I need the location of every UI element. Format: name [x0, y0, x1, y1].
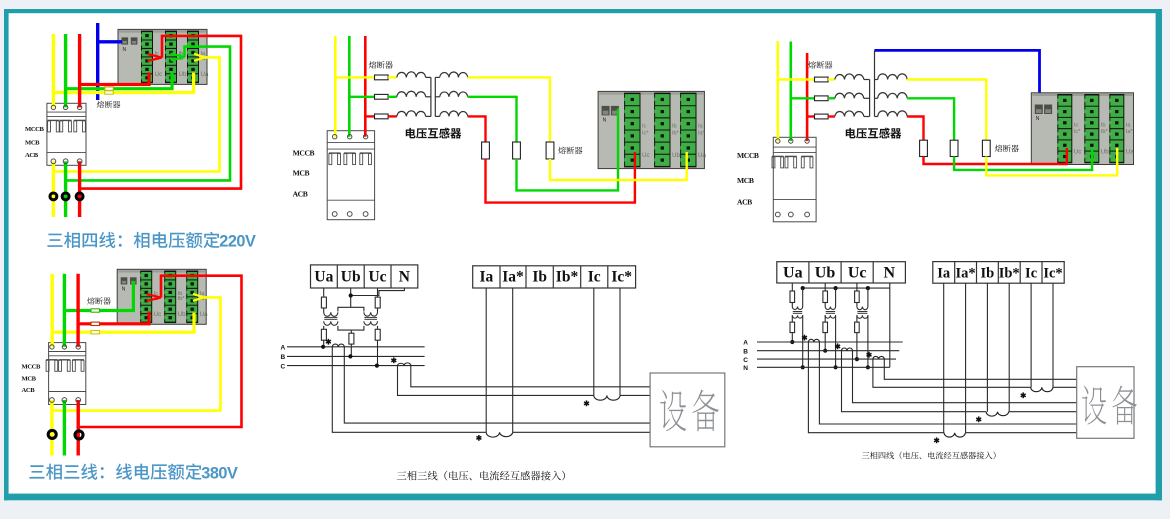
svg-text:MCB: MCB	[22, 375, 37, 382]
wire yellow current loop	[53, 57, 219, 171]
svg-text:Uc: Uc	[848, 265, 867, 282]
svg-text:Ia: Ia	[937, 266, 951, 282]
wire yellow to meter Ua TM	[550, 152, 687, 180]
svg-text:Ua: Ua	[200, 311, 208, 318]
svg-text:C: C	[281, 363, 286, 370]
wire phase C red vertical	[78, 34, 81, 107]
wire CT-A star lead BR	[808, 342, 944, 433]
wire mid to bus B BM	[350, 344, 352, 356]
wire CT-C return BR	[884, 359, 1076, 379]
PT primary common bar TM	[430, 77, 432, 116]
svg-text:Ia*: Ia*	[502, 269, 524, 286]
svg-text:MCB: MCB	[293, 169, 310, 178]
meter M3 (PT input)	[598, 91, 706, 168]
wire Ic* vertical BM	[619, 288, 621, 395]
wire red secondary TM	[468, 116, 486, 142]
polarity star CT-C BM	[391, 357, 396, 363]
circuit breaker Q4	[772, 137, 816, 222]
svg-text:Ua: Ua	[201, 71, 209, 78]
wire Ic vertical BM	[593, 288, 595, 395]
svg-text:220V: 220V	[219, 233, 256, 251]
PT secondary common bar TM	[434, 77, 436, 116]
label bus B BM	[281, 354, 286, 361]
label bus C BR	[743, 357, 748, 364]
wire PT mid lead BM	[350, 330, 352, 333]
fuse Ua BM	[321, 297, 326, 308]
wire Uc to PT BM	[377, 308, 379, 313]
breaker labels MCCB/MCB/ACB	[22, 364, 42, 395]
wire blue neutral to meter TR	[875, 50, 1040, 108]
fuse on row TR	[815, 77, 829, 82]
wire green below breaker	[64, 161, 67, 217]
junction Ub-N BM	[349, 293, 353, 297]
svg-text:C: C	[743, 357, 748, 364]
svg-text:Ib: Ib	[532, 269, 547, 286]
PT unit phase A BR	[791, 283, 793, 291]
wire yellow voltage tap to Ua	[53, 73, 193, 93]
teal frame right	[1156, 9, 1162, 500]
svg-text:Ia: Ia	[480, 269, 494, 286]
junction	[801, 365, 805, 369]
breaker terminals	[775, 139, 809, 217]
svg-text:B: B	[743, 348, 748, 355]
polarity star Ic BR	[1021, 392, 1026, 398]
junction	[790, 340, 794, 344]
svg-text:ACB: ACB	[737, 198, 752, 207]
wire to equipment 2 BM	[620, 394, 650, 396]
svg-text:ACB: ACB	[293, 189, 308, 198]
wire red secondary TR	[907, 117, 923, 141]
polarity mark	[835, 343, 840, 349]
svg-text:Ia*: Ia*	[956, 266, 976, 282]
polarity mark	[867, 352, 872, 358]
wire Ia* vertical BM	[512, 288, 514, 432]
wire phase B green vertical	[64, 34, 67, 107]
terminal strip Ia..Ic*	[473, 266, 636, 288]
label bus N BR	[743, 365, 748, 372]
wire CT-A star lead BM	[332, 347, 486, 433]
breaker labels MCCB/MCB/ACB	[293, 148, 315, 198]
junction	[834, 286, 838, 290]
polarity star CT-A BM	[326, 339, 331, 345]
wire green vertical TR	[789, 42, 792, 142]
wire green vertical TM	[348, 36, 351, 137]
svg-text:B: B	[281, 354, 286, 361]
red plug into Uc terminals	[148, 54, 163, 61]
wire green secondary TM	[468, 97, 517, 142]
CT ring on phase A	[50, 193, 57, 200]
wire yellow branch TM	[335, 76, 374, 78]
fuse vertical green TR	[950, 140, 958, 156]
PT right core BM	[364, 316, 377, 318]
bus C BR	[757, 358, 896, 360]
svg-text:Ib: Ib	[1101, 123, 1106, 129]
svg-text:Ic: Ic	[1025, 266, 1038, 282]
wire Ua to PT BM	[323, 308, 325, 313]
green plug into Ub terminals	[171, 53, 185, 60]
wire CT-B return BR	[853, 351, 1077, 403]
teal frame left	[4, 9, 9, 500]
polarity mark	[802, 335, 807, 341]
label bus A BR	[743, 340, 748, 347]
wire to bus A BM	[323, 340, 325, 347]
junction bus B BM	[348, 354, 352, 358]
svg-text:MCB: MCB	[25, 140, 40, 147]
svg-text:Ib*: Ib*	[672, 131, 680, 137]
CT ring on phase B	[62, 193, 69, 200]
PT unit phase C BR	[856, 283, 858, 291]
wire Ia vertical BM	[485, 288, 487, 432]
wire to equipment BR	[1009, 411, 1077, 413]
title three-phase three-wire 380V	[29, 463, 201, 479]
wire Ia vertical BR	[943, 283, 945, 433]
svg-text:Ic: Ic	[588, 269, 601, 286]
wire red tap to Uc BL	[78, 312, 149, 324]
PT primary common bar TR	[869, 80, 871, 117]
voltage transformer primary coils TR	[828, 78, 835, 80]
wire Ib vertical BR	[986, 283, 988, 412]
svg-text:Ic: Ic	[642, 124, 647, 130]
wire left secondary lead BM	[323, 326, 325, 329]
polarity star Ia BR	[934, 437, 939, 443]
breaker labels MCCB/MCB/ACB	[737, 151, 759, 207]
wire N jog BM	[351, 288, 405, 296]
wire green voltage tap to Ub	[66, 73, 172, 89]
wire phase B green vertical BL	[63, 274, 66, 347]
wire CT-C return BM	[411, 366, 650, 387]
svg-text:Ia*: Ia*	[698, 131, 706, 137]
wire Ia* vertical BR	[965, 283, 967, 433]
svg-text:ACB: ACB	[25, 152, 39, 159]
fuse vertical red TM	[482, 142, 490, 159]
svg-text:N: N	[743, 365, 748, 372]
svg-text:Ua: Ua	[783, 265, 803, 282]
svg-text:Uc: Uc	[368, 269, 386, 286]
wire red current loop BL	[78, 276, 241, 427]
fuse on row TR	[815, 96, 829, 101]
yellow plug into Ua terminals BL	[193, 294, 204, 301]
voltage transformer secondary coils TR	[875, 79, 878, 81]
fuse on green tap BL	[91, 309, 100, 312]
fuse vertical red TR	[920, 140, 928, 156]
wire Ib* vertical BR	[1008, 283, 1010, 412]
bus B BR	[757, 350, 899, 352]
wire blue branch to N terminal	[98, 40, 122, 43]
fuse mid secondary BM	[349, 333, 354, 344]
wire to bus C BM	[377, 340, 379, 365]
junction	[866, 365, 870, 369]
polarity star Ia BM	[476, 435, 481, 441]
wire red below breaker	[78, 161, 81, 217]
svg-text:MCCB: MCCB	[293, 148, 315, 157]
voltage transformer secondary coils TM	[435, 76, 439, 78]
svg-text:Ib: Ib	[981, 266, 995, 282]
wire green secondary TR	[907, 98, 954, 140]
label fuse vertical TM	[558, 147, 582, 155]
title three-phase four-wire 220V	[47, 232, 219, 248]
teal frame bottom	[4, 494, 1162, 501]
svg-text:ACB: ACB	[22, 387, 36, 394]
wire green current loop	[66, 47, 230, 181]
svg-text:Ia*: Ia*	[1126, 129, 1134, 135]
svg-text:Ub: Ub	[815, 265, 836, 282]
junction bus C BM	[375, 364, 379, 368]
wire green branch TR	[791, 97, 815, 99]
PT unit phase B BR	[824, 283, 826, 291]
svg-text:Ic*: Ic*	[642, 131, 649, 137]
label fuse 熔断器 BL	[87, 297, 111, 304]
circuit breaker Q1	[47, 103, 86, 165]
junction	[823, 349, 827, 353]
teal frame top	[4, 9, 1162, 13]
svg-text:A: A	[743, 340, 748, 347]
svg-text:N: N	[603, 118, 607, 124]
svg-text:MCCB: MCCB	[737, 151, 759, 160]
label bus A BM	[281, 345, 286, 352]
wire green to meter Ub TR	[954, 148, 1092, 170]
svg-text:N: N	[123, 47, 127, 53]
svg-text:N: N	[884, 265, 896, 282]
wire red below breaker BL	[76, 400, 79, 456]
title 380V value	[201, 464, 238, 482]
red plug into Uc terminals BL	[147, 294, 162, 301]
breaker labels MCCB/MCB/ACB	[25, 126, 45, 159]
equipment box 设备 BR	[1077, 367, 1134, 439]
svg-text:Uc: Uc	[642, 152, 650, 159]
fuse vertical green TM	[513, 142, 521, 159]
wire red current loop	[80, 36, 241, 189]
PT secondary bridge BM	[338, 326, 364, 330]
title 220V value	[219, 233, 256, 251]
wire CT-C star lead BR	[873, 359, 1031, 387]
wire Uc drop BM	[377, 288, 379, 297]
svg-text:A: A	[281, 345, 286, 352]
wire yellow vertical TR	[776, 41, 779, 141]
wire phase A yellow vertical BL	[51, 274, 54, 347]
yellow plug into Ua terminals	[194, 54, 205, 61]
svg-text:N: N	[122, 287, 126, 293]
junction	[834, 365, 838, 369]
junction	[801, 286, 805, 290]
wire red voltage tap to Uc	[80, 73, 149, 85]
svg-text:Ib*: Ib*	[556, 269, 579, 286]
polarity star Ic BM	[584, 400, 589, 406]
wire red branch TR	[807, 115, 814, 117]
bus C BM	[287, 365, 425, 367]
wire CT-A return BM	[344, 347, 650, 423]
label fuse TM	[369, 61, 393, 69]
svg-text:Ic*: Ic*	[1074, 129, 1081, 135]
fuse Uc BM	[375, 297, 380, 308]
label voltage transformer TM	[406, 128, 462, 139]
wire neutral blue vertical	[96, 23, 99, 100]
wire yellow to meter Ua TR	[986, 148, 1117, 175]
terminal strip Ua Ub Uc N BR	[777, 262, 906, 283]
svg-text:Uc: Uc	[154, 311, 162, 318]
meter M1 (three-phase four-wire direct)	[118, 29, 209, 84]
breaker terminals	[50, 345, 81, 403]
breaker terminals	[332, 135, 368, 217]
junction	[866, 286, 870, 290]
wire CT-C star lead BM	[398, 366, 594, 396]
wire red to meter Uc TR	[924, 148, 1067, 164]
fuse left secondary BM	[321, 329, 326, 340]
terminal strip Ia..Ic* BR	[933, 262, 1064, 284]
wire yellow vertical TM	[334, 36, 337, 137]
fuse vertical yellow TM	[546, 142, 554, 159]
wire CT-A return BR	[819, 342, 1076, 424]
svg-text:Ib: Ib	[672, 124, 677, 130]
fuse vertical yellow TR	[982, 140, 990, 156]
svg-text:Ub: Ub	[1101, 149, 1109, 156]
CT ring on phase C BL	[75, 431, 83, 439]
PT secondary common bar TR	[874, 50, 876, 116]
fuse right secondary BM	[375, 329, 380, 340]
wire yellow current loop BL	[52, 297, 221, 410]
CT ring on phase C	[76, 193, 83, 200]
svg-text:Ic: Ic	[1074, 123, 1079, 129]
junction	[855, 357, 859, 361]
wire yellow below breaker	[52, 161, 55, 217]
svg-text:Ub: Ub	[341, 269, 361, 286]
fuse on row TR	[815, 114, 829, 119]
label fuse vertical TR	[995, 145, 1019, 153]
wire to equipment BR	[1053, 386, 1077, 388]
polarity star Ib BR	[976, 416, 981, 422]
fuse F1 on green tap	[105, 87, 114, 90]
PT left core BM	[324, 316, 337, 318]
wire green below breaker BL	[63, 400, 66, 456]
wire Ua drop BM	[323, 288, 325, 297]
svg-text:Ub: Ub	[672, 152, 680, 159]
wire N tie BR	[803, 287, 890, 289]
label fuse TR	[808, 61, 832, 69]
fuse on #00d900 row TM	[375, 94, 389, 99]
label voltage transformer TR	[846, 128, 902, 139]
wire red to meter Uc TM	[486, 152, 635, 203]
label equipment BM	[660, 390, 719, 432]
wire to equipment BR	[965, 432, 1076, 434]
svg-text:Ib*: Ib*	[999, 266, 1020, 282]
bus B BM	[287, 355, 425, 357]
equipment box 设备 BM	[650, 373, 725, 447]
meter M2 (three-phase three-wire direct)	[117, 269, 208, 324]
svg-text:Uc: Uc	[155, 71, 163, 78]
CT ring on phase A BL	[48, 430, 56, 438]
wire Ic* vertical BR	[1052, 283, 1054, 387]
wire yellow branch TR	[778, 78, 815, 80]
label bus C BM	[281, 363, 286, 370]
circuit breaker Q3	[327, 131, 374, 220]
wire Ic vertical BR	[1030, 283, 1032, 387]
fuse F2 on yellow tap	[105, 91, 114, 94]
PT right winding BM	[364, 312, 378, 316]
wire red branch TM	[365, 115, 374, 117]
svg-text:380V: 380V	[201, 464, 238, 482]
svg-text:Ib*: Ib*	[178, 296, 186, 302]
wire N vertical BR	[889, 283, 891, 367]
svg-text:MCCB: MCCB	[25, 126, 45, 133]
svg-text:Ua: Ua	[314, 269, 333, 286]
label fuse 熔断器	[97, 101, 121, 108]
bus A BM	[287, 346, 425, 348]
fuse on #ffff00 row TM	[375, 75, 389, 80]
terminal strip Ua Ub Uc N	[311, 265, 418, 288]
wire green to meter N TM	[517, 109, 619, 191]
wire Ub drop BM	[350, 288, 352, 307]
wire CT-B star lead BR	[842, 351, 987, 412]
svg-text:Ic*: Ic*	[1043, 266, 1062, 282]
wire right secondary lead BM	[377, 326, 379, 329]
caption BM	[397, 471, 565, 481]
label bus B BR	[743, 348, 748, 355]
PT primary bridge BM	[338, 307, 364, 311]
svg-text:Ua: Ua	[1126, 149, 1134, 156]
breaker terminals	[51, 105, 82, 164]
PT left winding BM	[324, 312, 338, 316]
svg-text:Ub: Ub	[178, 311, 186, 318]
meter M4 (PT input, 4-wire)	[1031, 93, 1134, 165]
wire yellow secondary TM	[468, 77, 550, 142]
wire to equipment 1 BM	[513, 431, 650, 433]
wire green tap to N terminal BL	[64, 281, 133, 311]
fuse on #ff0000 row TM	[375, 114, 389, 119]
caption BR	[862, 452, 996, 460]
svg-text:Ib*: Ib*	[1101, 129, 1109, 135]
label equipment BR	[1082, 386, 1137, 425]
svg-text:N: N	[1036, 116, 1040, 122]
svg-text:Uc: Uc	[1074, 149, 1082, 156]
wire yellow tap to Ua BL	[52, 313, 194, 333]
voltage transformer primary coils TM	[388, 76, 397, 78]
svg-text:MCCB: MCCB	[22, 364, 42, 371]
wire red vertical TR	[806, 53, 809, 141]
wire phase A yellow vertical	[52, 34, 55, 107]
svg-text:MCB: MCB	[737, 176, 754, 185]
bus A BR	[757, 341, 903, 343]
junction bus A BM	[321, 345, 325, 349]
wire yellow secondary TR	[907, 80, 986, 141]
fuse on red tap BL	[91, 322, 100, 325]
svg-text:Ua: Ua	[698, 152, 706, 159]
bus N BR	[757, 366, 890, 368]
svg-text:Ub: Ub	[179, 71, 187, 78]
svg-text:N: N	[399, 269, 410, 286]
wire red vertical TM	[364, 36, 367, 137]
circuit breaker Q2	[46, 343, 86, 405]
wire phase C red vertical BL	[76, 274, 79, 347]
wire green branch TM	[349, 96, 374, 98]
wire yellow below breaker BL	[50, 400, 53, 456]
fuse on yellow tap BL	[91, 331, 100, 334]
svg-text:Ic*: Ic*	[611, 269, 632, 286]
